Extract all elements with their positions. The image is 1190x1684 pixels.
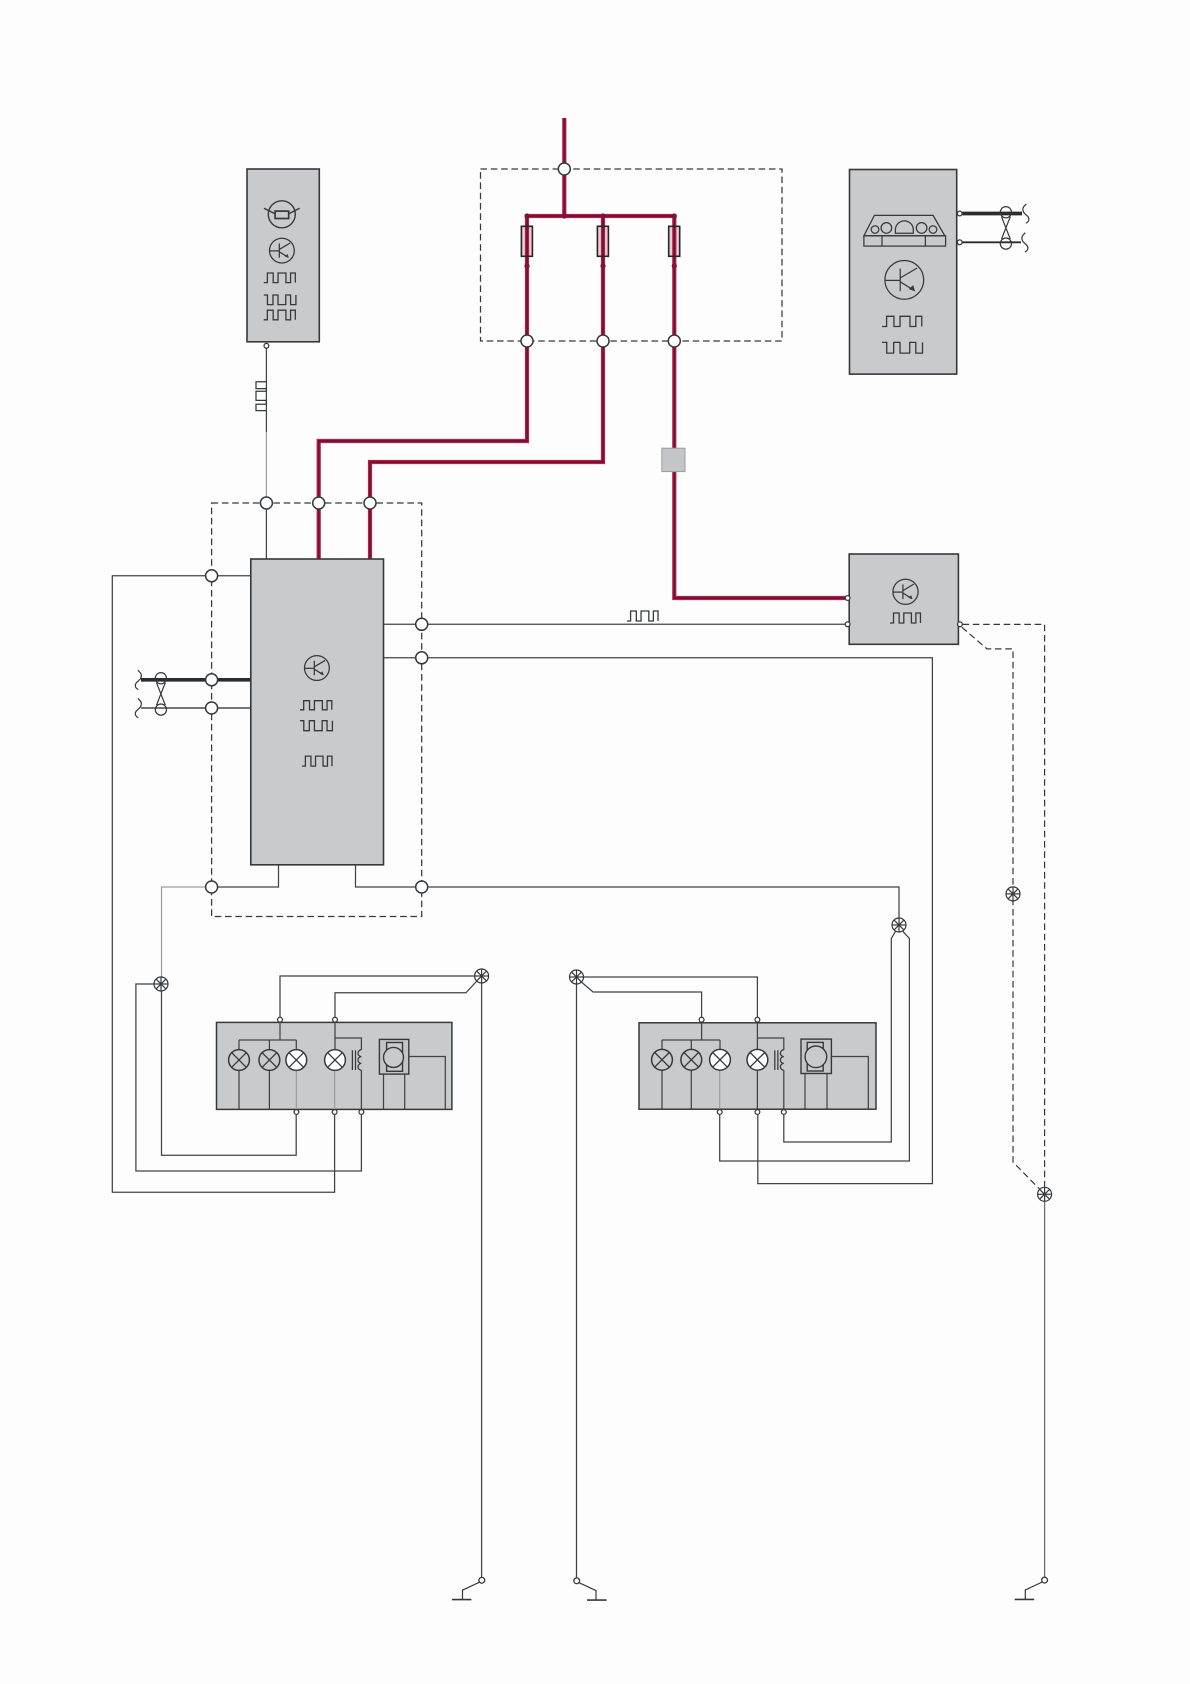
wire motor pin xyxy=(404,1074,406,1109)
pulse signal symbol xyxy=(264,310,296,320)
wire motor pin xyxy=(826,1074,828,1110)
inline connector (gray square) xyxy=(662,448,685,471)
splice S1 xyxy=(154,977,168,991)
pin instrument cluster 2 xyxy=(957,240,962,245)
connector on fuse box xyxy=(558,163,570,175)
connector fuse F3 out xyxy=(668,335,680,347)
splice S5 xyxy=(1038,1187,1052,1201)
wire splice S2 to right cluster lamp pin xyxy=(720,930,910,1161)
pulse signal symbol (inverted) xyxy=(882,342,923,353)
junction (red) xyxy=(524,263,529,268)
pulse signal symbol xyxy=(264,273,296,283)
wire fuse F3 to relay (red) xyxy=(674,216,846,598)
lamp L7 xyxy=(710,1049,731,1070)
pulse signal symbol xyxy=(300,701,332,710)
pin instrument cluster 1 xyxy=(957,211,962,216)
wire CEM left to left lamp cluster pin xyxy=(112,576,334,1192)
shielded pair wire (thin) xyxy=(141,707,251,709)
wire (dashed) relay to splice via splice xyxy=(962,627,1041,1191)
ground G3 xyxy=(1015,1577,1048,1599)
pulse signal symbol xyxy=(882,316,922,326)
wire internal feed xyxy=(279,1022,281,1040)
wire connector to CEM xyxy=(218,575,251,577)
junction (red) xyxy=(524,213,529,218)
wire CEM bottom-right pin to connector xyxy=(356,865,416,887)
wire into central module xyxy=(265,509,267,560)
pulse signal symbol xyxy=(890,613,920,623)
wire break symbol xyxy=(135,698,141,717)
fuse F2 xyxy=(597,226,608,256)
wire motor pin xyxy=(383,1074,385,1109)
pulse signal symbol (inverted) xyxy=(264,295,296,305)
wire CEM to right lamp cluster pin xyxy=(384,658,933,1184)
pin left cluster top 1 xyxy=(278,1017,283,1022)
data link wire (thin) xyxy=(962,241,1021,243)
wire splice S3 to ground G2 xyxy=(576,984,578,1578)
right lamp cluster module xyxy=(639,1023,876,1109)
shielded pair wire (thick) xyxy=(141,678,251,682)
junction (red) xyxy=(672,263,677,268)
splice S2 xyxy=(892,918,906,932)
connector CEM bottom-right xyxy=(416,881,428,893)
wiper motor M1 xyxy=(379,1039,408,1074)
wire lamp return xyxy=(295,1070,297,1112)
lamp L2 xyxy=(259,1050,280,1071)
wire (dashed) relay to splice xyxy=(963,624,1045,1190)
pin right cluster bottom 1 xyxy=(717,1110,722,1115)
lamp L8 xyxy=(747,1049,768,1070)
wire CEM bottom-left pin to connector xyxy=(218,865,279,887)
wire to lamp xyxy=(238,1040,240,1050)
pin left cluster bottom 1 xyxy=(294,1110,299,1115)
wire splice S3 to right cluster pin 1 xyxy=(581,982,702,1018)
pin right cluster bottom 2 xyxy=(755,1110,760,1115)
wire to coil xyxy=(335,1038,361,1050)
splice S6 xyxy=(1006,887,1020,901)
pulse signal symbol on wire xyxy=(627,611,658,621)
relay module (right) xyxy=(849,554,958,644)
connector CEM left 2 xyxy=(206,674,218,686)
wire splice S3 to right cluster pin 2 xyxy=(583,977,758,1017)
junction (red) xyxy=(672,213,677,218)
wire to lamp xyxy=(719,1040,721,1050)
wire internal feed xyxy=(756,1023,758,1050)
wire to lamp xyxy=(295,1040,297,1050)
wire from control unit (dark) xyxy=(265,348,267,432)
pulse signal symbol on wire xyxy=(256,382,266,411)
wire lamp return xyxy=(690,1070,692,1109)
relay coil symbol xyxy=(352,1050,361,1070)
wire splice S4 to ground G1 xyxy=(481,983,483,1578)
connector CEM top 3 xyxy=(364,497,376,509)
transistor symbol xyxy=(270,238,295,263)
wire motor feed xyxy=(409,1057,446,1110)
instrument cluster module (top-right) xyxy=(850,170,957,375)
fuse F1 xyxy=(521,226,532,256)
wire connector to splice S2 xyxy=(428,887,899,919)
pin right cluster bottom 3 xyxy=(781,1110,786,1115)
pin right cluster top 1 xyxy=(699,1017,704,1022)
wire lamp return xyxy=(756,1070,758,1112)
fuse box boundary (dashed) xyxy=(481,169,783,341)
lamp L5 xyxy=(652,1049,673,1070)
pin relay out xyxy=(958,622,963,627)
connector CEM left 1 xyxy=(206,570,218,582)
pin relay feed xyxy=(845,596,850,601)
wire splice S4 to left cluster pin 2 xyxy=(335,981,477,1018)
pulse signal symbol xyxy=(302,756,332,766)
wire splice S1 to left cluster lamp pin xyxy=(162,990,297,1155)
wiper motor M2 xyxy=(801,1039,831,1073)
wire internal bus xyxy=(239,1039,296,1041)
wire coil return xyxy=(360,1070,362,1112)
junction (red) xyxy=(600,263,605,268)
relay coil symbol xyxy=(775,1050,784,1070)
wire lamp return xyxy=(268,1070,270,1109)
wire connector to splice S1 xyxy=(162,887,206,978)
wire to lamp xyxy=(661,1040,663,1050)
wire CEM to relay xyxy=(384,623,846,625)
wire motor pin xyxy=(804,1074,806,1110)
wire motor feed xyxy=(831,1057,868,1110)
pin left cluster bottom 3 xyxy=(359,1110,364,1115)
pin right cluster top 2 xyxy=(755,1017,760,1022)
connector CEM right 2 xyxy=(416,652,428,664)
splice S3 xyxy=(570,970,584,984)
wire to lamp xyxy=(690,1040,692,1050)
wire splice S4 to left cluster pin 1 xyxy=(280,976,475,1017)
wire splice S5 to ground G3 xyxy=(1044,1201,1046,1577)
left lamp cluster module xyxy=(217,1022,452,1109)
connector CEM left 3 xyxy=(206,702,218,714)
wire coil return xyxy=(783,1070,785,1112)
wire internal bus xyxy=(662,1039,720,1041)
control unit (top-left module) xyxy=(247,169,319,342)
wire splice S1 to left cluster coil pin xyxy=(136,984,362,1171)
connector fuse F2 out xyxy=(597,335,609,347)
central control module xyxy=(251,559,384,865)
pin left cluster top 2 xyxy=(333,1017,338,1022)
wire fuse F1 to CEM (red) xyxy=(319,216,527,560)
wire to lamp xyxy=(268,1040,270,1050)
transistor symbol xyxy=(305,656,330,681)
wire break symbol xyxy=(1023,204,1029,223)
data link wire (thick) xyxy=(962,212,1022,216)
sensor symbol (resistor in circle) xyxy=(264,201,300,228)
twisted pair symbol xyxy=(155,673,166,716)
lamp L4 xyxy=(325,1050,346,1071)
instrument panel symbol xyxy=(864,215,946,246)
pulse signal symbol (inverted) xyxy=(300,721,332,731)
lamp L3 xyxy=(286,1050,307,1071)
wire break symbol xyxy=(1022,233,1028,252)
fuse bus wire (red) xyxy=(527,214,674,218)
wire to coil xyxy=(757,1038,783,1050)
pin control unit xyxy=(264,343,269,348)
wire to connector (light) xyxy=(265,432,267,497)
ground G1 xyxy=(452,1577,485,1599)
wire lamp return xyxy=(238,1070,240,1109)
wire splice S2 to right cluster coil pin xyxy=(784,930,896,1142)
connector CEM top 1 xyxy=(260,497,272,509)
pin left cluster bottom 2 xyxy=(332,1110,337,1115)
wire lamp return xyxy=(334,1070,336,1112)
lamp L1 xyxy=(229,1050,250,1071)
battery feed wire (red) xyxy=(562,118,566,216)
connector CEM right 1 xyxy=(416,618,428,630)
wire lamp return xyxy=(661,1070,663,1109)
twisted pair symbol xyxy=(1000,207,1011,250)
pin relay in xyxy=(845,622,850,627)
splice S4 xyxy=(475,969,489,983)
wire internal feed xyxy=(334,1022,336,1050)
wire lamp return xyxy=(719,1070,721,1112)
transistor symbol xyxy=(893,579,918,604)
transistor symbol xyxy=(885,261,924,300)
central module boundary (dashed) xyxy=(212,503,422,917)
wire internal feed xyxy=(701,1023,703,1040)
fuse F3 xyxy=(669,226,680,256)
wire break symbol xyxy=(135,670,141,689)
junction (red) xyxy=(562,213,567,218)
lamp L6 xyxy=(681,1049,702,1070)
junction (red) xyxy=(600,213,605,218)
ground G2 xyxy=(574,1578,607,1600)
connector CEM top 2 xyxy=(313,497,325,509)
connector fuse F1 out xyxy=(521,335,533,347)
connector CEM bottom-left xyxy=(206,881,218,893)
wire fuse F2 to CEM (red) xyxy=(370,216,603,560)
